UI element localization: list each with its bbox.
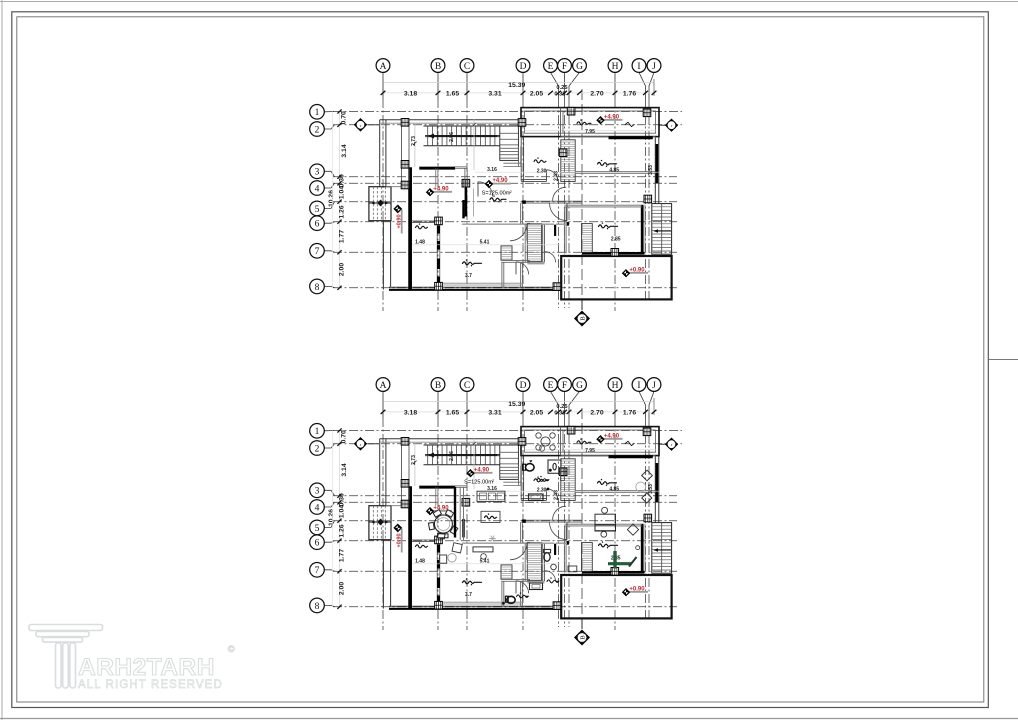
side strip top wall (412, 539, 437, 541)
label: SW bedroom (463, 581, 482, 584)
svg-text:0.35: 0.35 (554, 91, 566, 97)
label: SW bedroom (463, 262, 482, 265)
svg-text:1.26: 1.26 (339, 205, 346, 218)
kitchen label box (481, 511, 500, 522)
living east thick wall (lower plan variant) (454, 487, 456, 538)
left overall dim extension line (332, 112, 334, 288)
svg-text:G: G (576, 62, 583, 72)
svg-text:4: 4 (315, 503, 320, 513)
grid axis 3 (horizontal) (333, 495, 677, 497)
grid axis 7 (horizontal) (333, 570, 677, 572)
hall-living door arc (upper plan) (478, 182, 493, 197)
desk middle right room (595, 525, 616, 531)
short wall below porch top (386, 505, 409, 507)
svg-text:2.30: 2.30 (537, 169, 547, 175)
left overall dim extension line (332, 431, 334, 607)
hall wall on axis D lower (520, 522, 522, 543)
desk in SW bedroom (473, 547, 493, 552)
west entrance porch steps (369, 506, 391, 540)
grid axis 5 (horizontal) (333, 201, 677, 203)
west entrance porch steps (369, 187, 391, 221)
grid bubble 3 (324, 171, 334, 176)
svg-text:2: 2 (315, 444, 320, 454)
wardrobe hatch strip between bath1 and NE bedroom (561, 459, 575, 501)
north terrace band (rows 1-2, D to J) (521, 108, 659, 137)
grid bubble 8 (324, 286, 334, 287)
svg-text:1.65: 1.65 (446, 90, 459, 97)
hall wall y~202 (521, 519, 582, 521)
break mark on band line (625, 122, 635, 126)
svg-text:3.18: 3.18 (404, 90, 417, 97)
wardrobe hatch strip between bath1 and NE bedroom (561, 140, 575, 182)
grid axis A (vertical) (382, 99, 384, 311)
balcony table and chairs (541, 437, 550, 446)
svg-text:+4.90: +4.90 (433, 186, 449, 192)
column marker (405,122.3) (401, 119, 409, 127)
bathroom2 east wall (542, 224, 544, 263)
grid bubble D (522, 391, 524, 418)
living room north wall (419, 486, 455, 489)
column marker (563.1,152.7) (559, 149, 567, 157)
svg-text:3.7: 3.7 (465, 592, 472, 598)
NE bedroom table with chairs (595, 514, 616, 531)
stair handrail (425, 134, 500, 136)
column marker (465.9,183.2) (462, 498, 470, 506)
svg-text:+4.90: +4.90 (492, 178, 508, 184)
bathroom1 walls (axis D) (520, 137, 522, 182)
svg-text:2: 2 (492, 479, 494, 483)
svg-text:B: B (435, 62, 441, 72)
hall door arc 2 (550, 522, 568, 540)
level +4.90 living (430, 191, 452, 193)
north wall of stair hall (380, 119, 523, 121)
side strip top wall (412, 220, 437, 222)
grid axis I (vertical) (645, 99, 647, 302)
bath2 west wall (524, 543, 526, 582)
svg-text:+0.90: +0.90 (396, 214, 402, 228)
SE bedroom side rect (568, 566, 577, 572)
grid bubble 6 (324, 222, 334, 224)
grid bubble A (382, 391, 384, 418)
svg-text:F: F (562, 62, 567, 72)
grid bubble 7 (324, 251, 334, 253)
hall door arc 2 (550, 203, 568, 221)
label: bath1 (534, 479, 546, 482)
east stair arrow (654, 549, 671, 551)
overall dim line 15.39 (383, 82, 654, 84)
stair handrail (425, 453, 500, 455)
east stair arrow (654, 230, 671, 232)
svg-text:J: J (652, 381, 656, 391)
bathroom2 east wall (542, 543, 544, 582)
svg-text:3: 3 (315, 487, 320, 497)
grid axis C (vertical) (466, 99, 468, 311)
svg-text:3: 3 (315, 168, 320, 178)
small cabinet left of NE room (561, 469, 565, 481)
grid axis G (vertical) (568, 418, 570, 627)
wall on axis B with window openings (436, 540, 438, 605)
grid bubble 2 (324, 444, 334, 448)
bath3 west wall (501, 581, 503, 606)
bath2 south wall (527, 580, 544, 582)
column marker (556.9,286.6) (553, 602, 561, 610)
SE bedroom south wall (582, 252, 645, 255)
reference diamond marker row2 left (368, 124, 379, 126)
grid axis E (vertical) (558, 418, 560, 627)
grid bubble H (614, 72, 616, 99)
svg-text:0.70: 0.70 (341, 430, 348, 443)
wall below landing (503, 481, 521, 483)
svg-text:2: 2 (315, 125, 320, 135)
bathroom2 hatch (shower) (527, 543, 541, 581)
bath3 north wall (501, 578, 530, 580)
svg-text:S=125.00m: S=125.00m (464, 480, 493, 486)
north terrace band (rows 1-2, D to J) (521, 427, 659, 456)
svg-text:3.53: 3.53 (648, 165, 654, 175)
svg-text:5: 5 (315, 205, 320, 215)
svg-text:0.25: 0.25 (556, 404, 568, 410)
SW bedroom chairs and table (452, 543, 462, 553)
svg-text:2.30: 2.30 (537, 488, 547, 494)
star mark (489, 538, 496, 540)
grid axis D (vertical) (522, 418, 524, 630)
grid bubble B (437, 391, 439, 418)
bath3 toilet (507, 596, 515, 603)
east stair (rows 6-7) (652, 523, 672, 574)
svg-text:5: 5 (315, 524, 320, 534)
svg-text:1: 1 (315, 427, 320, 437)
shower upper bath (548, 460, 561, 473)
stair flight - treads (424, 444, 519, 446)
wall on axis B with window openings (436, 221, 438, 286)
small wall stub near C (462, 519, 464, 537)
stair turn flight (500, 445, 519, 479)
svg-text:0.36: 0.36 (339, 493, 346, 506)
grid axis A (vertical) (382, 418, 384, 630)
SE bedroom west wall (563, 207, 565, 254)
svg-text:B: B (435, 381, 441, 391)
bathroom2 door arc (545, 252, 556, 263)
svg-text:1.48: 1.48 (415, 239, 425, 245)
main south wall (389, 286, 561, 288)
grid bubble C (466, 72, 468, 99)
grid bubble E (551, 72, 559, 99)
level +4.90 living (430, 510, 452, 512)
label: NE bedroom (598, 162, 617, 165)
side terrace level +0.90 rotated (401, 529, 403, 553)
east wall upper block (654, 137, 656, 204)
washbasin upper bath (529, 494, 544, 501)
svg-text:0.36: 0.36 (339, 174, 346, 187)
kitchen red label +4.90 and area (upper plan position) (489, 183, 511, 185)
grid axis 8 (horizontal) (333, 606, 677, 608)
section bubble B below plan (581, 300, 583, 310)
grid bubble 6 (324, 541, 334, 543)
bathroom1 walls (axis D) (520, 456, 522, 501)
svg-text:3.16: 3.16 (487, 167, 497, 173)
overall dim line 15.39 (383, 401, 654, 403)
grid bubble I (639, 72, 646, 99)
svg-text:F: F (562, 381, 567, 391)
grid axis 2 (horizontal) (333, 124, 682, 126)
stair turn flight (500, 126, 519, 160)
bathroom2 door arc (545, 571, 556, 582)
svg-text:2.73: 2.73 (411, 455, 417, 465)
svg-text:1.48: 1.48 (415, 558, 425, 564)
wall above south wall (corridor) (438, 282, 523, 284)
svg-text:1.76: 1.76 (623, 90, 636, 97)
SE bedroom north wall (564, 523, 642, 525)
west wall upper (stair hall) (379, 120, 381, 187)
grid bubble 5 (324, 202, 334, 209)
thick wall west of bedroom1 (409, 168, 412, 290)
column marker (438.5,220.9) (435, 536, 443, 544)
reference diamond marker row2 right (659, 124, 665, 126)
grid bubble F (564, 72, 566, 99)
grid axis J (vertical) (648, 418, 650, 621)
porch level marker (394, 205, 402, 213)
grid bubble F (564, 391, 566, 418)
section cut line B-B (vertical long dash) (581, 408, 583, 629)
stair flight - treads (424, 125, 519, 127)
wall below landing (503, 162, 521, 164)
page edge lines (1, 0, 3, 720)
hall door arc 1 (510, 224, 527, 241)
terrace band inner dim 7.95 (525, 130, 656, 132)
bathroom2 hatch (shower) (527, 224, 541, 262)
grid bubble 4 (324, 502, 334, 507)
svg-text:1: 1 (315, 108, 320, 118)
grid bubble 2 (324, 125, 334, 129)
column marker (405,164.3) (401, 161, 409, 169)
column marker (438.5,286.2) (435, 601, 443, 609)
label: side terrace (416, 226, 428, 229)
svg-text:7: 7 (315, 247, 320, 257)
closet wall near living NE corner (435, 168, 437, 186)
svg-text:+0.90: +0.90 (396, 533, 402, 547)
column marker (405,185.0) (401, 181, 409, 189)
bath3 west wall (501, 262, 503, 287)
grid axis F (vertical) (564, 99, 566, 308)
label: SE bedroom (599, 225, 618, 228)
level +4.90 terrace band (601, 438, 623, 440)
svg-text:C: C (464, 62, 470, 72)
terrace band inner dim 7.95 (525, 449, 656, 451)
svg-text:2.00: 2.00 (339, 263, 346, 276)
svg-text:0.35: 0.35 (554, 410, 566, 416)
band divider wall near E (560, 108, 562, 137)
svg-text:1.04: 1.04 (339, 505, 346, 518)
svg-text:2.70: 2.70 (590, 409, 603, 416)
stair direction arrow (431, 454, 497, 456)
label: SE bedroom (599, 544, 618, 547)
hall door arc 1 (510, 543, 527, 560)
grid bubble 7 (324, 570, 334, 572)
grid axis C (vertical) (466, 418, 468, 630)
main south wall (389, 605, 561, 607)
corridor wall segments (530, 223, 554, 225)
svg-text:10.26: 10.26 (328, 190, 335, 207)
west wall lower (382, 540, 384, 609)
wall under kitchen area (462, 223, 530, 225)
reference diamond marker row2 right (659, 443, 665, 445)
column marker (614.8,252.3) (611, 249, 619, 257)
hall wall y~202 (521, 200, 582, 202)
svg-text:B: B (579, 316, 586, 321)
hall wall on axis D lower (520, 203, 522, 224)
section cut line B-B (vertical long dash) (581, 89, 583, 310)
svg-text:S=125.00m: S=125.00m (482, 191, 511, 197)
bath2 south wall (527, 261, 544, 263)
svg-text:I: I (637, 381, 640, 391)
grid axis 8 (horizontal) (333, 287, 677, 289)
svg-text:1.76: 1.76 (623, 409, 636, 416)
svg-text:8: 8 (315, 602, 320, 612)
grid axis 5 (horizontal) (333, 520, 677, 522)
column marker (647,112.8) (643, 428, 651, 436)
svg-text:3.14: 3.14 (341, 144, 348, 157)
level +0.90 SE terrace (626, 272, 648, 274)
terrace south-east (rows 7-8) (561, 575, 671, 618)
column marker (522,122.4) (518, 119, 526, 127)
dining east wall (lower plan) (459, 488, 461, 540)
svg-text:2: 2 (510, 190, 512, 194)
east wall upper block (654, 456, 656, 523)
svg-text:2.56: 2.56 (449, 451, 455, 461)
grid axis D (vertical) (522, 99, 524, 311)
SE bedroom pillow diamond (627, 524, 638, 535)
grid bubble 1 (324, 430, 334, 432)
east stair (rows 6-7) (652, 204, 672, 255)
lower plan red label +4.90 near stair (471, 472, 493, 474)
svg-text:7.95: 7.95 (585, 448, 595, 454)
stair dim extension line right (473, 438, 475, 489)
svg-text:+0.90: +0.90 (629, 267, 645, 273)
label: terrace (577, 441, 591, 444)
hall door arc 3 (553, 506, 567, 520)
svg-text:1.04: 1.04 (339, 186, 346, 199)
svg-text:©: © (228, 644, 235, 654)
svg-text:E: E (548, 381, 554, 391)
SE bedroom bed (green) (613, 551, 616, 569)
SE bedroom east wall (641, 524, 644, 573)
svg-text:H: H (612, 381, 619, 391)
stair dim extension line right (473, 119, 475, 170)
west wall lower (382, 221, 384, 290)
svg-text:2.05: 2.05 (530, 409, 543, 416)
svg-text:8: 8 (315, 283, 320, 293)
small wall stub near C (462, 200, 464, 218)
hall door arc 3 (553, 187, 567, 201)
SE bedroom north wall (564, 204, 642, 206)
level +4.90 terrace band (601, 119, 623, 121)
corridor wall segments (530, 542, 554, 544)
segment dim line (383, 92, 654, 94)
SE bedroom south wall (582, 571, 645, 574)
stair direction arrow (431, 135, 497, 137)
svg-text:10.26: 10.26 (328, 509, 335, 526)
SE bedroom east wall (641, 205, 644, 254)
section bubble B below plan (581, 619, 583, 629)
NE bedroom south wall (575, 490, 655, 492)
stair hall west wall pair (401, 439, 403, 506)
svg-text:15.39: 15.39 (508, 82, 525, 89)
svg-text:1.65: 1.65 (446, 409, 459, 416)
label: living (upper) (490, 198, 506, 201)
svg-text:2.70: 2.70 (590, 90, 603, 97)
SE bedroom wardrobe hatch (582, 543, 593, 572)
svg-text:1.26: 1.26 (339, 524, 346, 537)
column marker (522,122.4) (518, 438, 526, 446)
bath2 sink (551, 564, 557, 570)
svg-text:+0.90: +0.90 (629, 586, 645, 592)
grid bubble 1 (324, 111, 334, 113)
svg-text:C: C (464, 381, 470, 391)
svg-text:2.43: 2.43 (554, 490, 560, 500)
closet wall near living NE corner (435, 487, 437, 505)
west wall upper (stair hall) (379, 439, 381, 506)
grid axis G (vertical) (568, 99, 570, 308)
bath3 north wall (501, 259, 530, 261)
segment dim line (383, 411, 654, 413)
SW bedroom closet hatch (501, 565, 512, 579)
grid axis H (vertical) (614, 99, 616, 311)
grid axis H (vertical) (614, 418, 616, 630)
NE bedroom north wall (561, 455, 655, 457)
grid axis B (vertical) (437, 99, 439, 311)
grid axis 6 (horizontal) (333, 540, 677, 542)
grid bubble E (551, 391, 559, 418)
stair width dim extension line (414, 123, 416, 167)
grid bubble G (569, 72, 580, 99)
grid axis 4 (horizontal) (333, 501, 677, 503)
SE bedroom west wall (563, 526, 565, 573)
grid axis I (vertical) (645, 418, 647, 621)
svg-text:5.41: 5.41 (480, 239, 490, 245)
svg-text:0.70: 0.70 (341, 111, 348, 124)
svg-text:3.14: 3.14 (341, 463, 348, 476)
grid bubble D (522, 72, 524, 99)
short wall below porch top (386, 186, 409, 188)
svg-text:D: D (520, 62, 527, 72)
door jambs (black) (522, 201, 525, 204)
column marker (647.8,199.0) (644, 514, 652, 522)
level +0.90 SE terrace (626, 591, 648, 593)
grid axis 1 (horizontal) (333, 111, 682, 113)
dining bench (438, 534, 449, 538)
grid axis E (vertical) (558, 99, 560, 308)
column marker (465.9,183.2) (462, 179, 470, 187)
stair hall west wall pair (401, 120, 403, 187)
svg-text:6: 6 (315, 539, 320, 549)
svg-text:4.85: 4.85 (609, 167, 619, 173)
svg-text:+4.90: +4.90 (474, 467, 490, 473)
NE bedroom north wall (561, 136, 655, 138)
column marker (438.5,220.9) (435, 217, 443, 225)
SE bedroom wardrobe hatch (582, 224, 593, 253)
grid axis 1 (horizontal) (333, 430, 682, 432)
bath2 washbasin (530, 583, 543, 590)
grid bubble H (614, 391, 616, 418)
porch level marker (394, 524, 402, 532)
north wall of stair hall (380, 438, 523, 440)
column marker (647.8,199.0) (644, 195, 652, 203)
wall above south wall (corridor) (438, 601, 523, 603)
grid bubble 8 (324, 605, 334, 606)
svg-text:3.31: 3.31 (488, 409, 501, 416)
svg-text:ALL RIGHT RESERVED: ALL RIGHT RESERVED (78, 679, 223, 691)
svg-text:2.85: 2.85 (611, 237, 621, 243)
